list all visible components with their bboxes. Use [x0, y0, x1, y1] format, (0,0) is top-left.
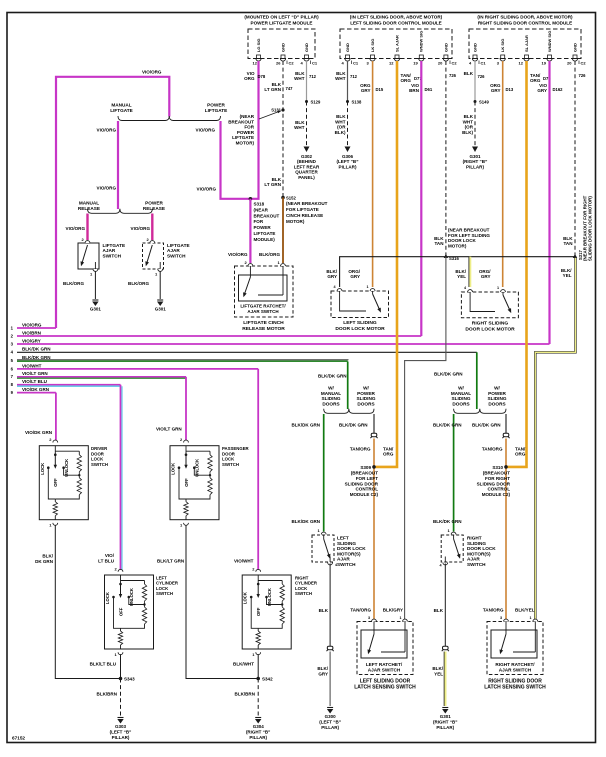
svg-text:AJAR SWITCH: AJAR SWITCH	[499, 668, 532, 673]
svg-text:DOOR LOCK MOTOR: DOOR LOCK MOTOR	[465, 327, 515, 333]
svg-text:W/: W/	[363, 386, 369, 391]
svg-text:AJAR SWITCH: AJAR SWITCH	[247, 309, 278, 314]
svg-text:12: 12	[519, 61, 524, 66]
ground G301 right liftgate ajar switch	[157, 299, 163, 301]
svg-text:BLK: BLK	[464, 71, 474, 76]
svg-text:VIO/ORG: VIO/ORG	[228, 252, 248, 257]
svg-text:LIFTGATE: LIFTGATE	[205, 108, 228, 113]
svg-text:PILLAR): PILLAR)	[466, 164, 484, 169]
svg-text:(IN LEFT SLIDING DOOR, ABOVE M: (IN LEFT SLIDING DOOR, ABOVE MOTOR)	[350, 15, 443, 20]
svg-text:VIO/ORG: VIO/ORG	[131, 226, 151, 231]
svg-text:LT GRN: LT GRN	[264, 87, 281, 92]
svg-text:VIO/ORG: VIO/ORG	[142, 70, 162, 75]
splice S129	[305, 100, 308, 103]
svg-text:UNLOCK: UNLOCK	[267, 588, 272, 606]
module U2 pin 19 WNDW SIG	[419, 55, 423, 59]
svg-text:726: 726	[449, 73, 457, 78]
svg-text:D162: D162	[553, 87, 564, 92]
bus wire 2 VIO/BRN	[17, 335, 421, 337]
wire BLK/ORG power ajar switch to ground	[159, 272, 161, 300]
svg-text:VIO/WHT: VIO/WHT	[22, 363, 42, 368]
svg-text:RIGHT RATCHET/: RIGHT RATCHET/	[495, 662, 535, 667]
svg-text:(BREAKOUT: (BREAKOUT	[483, 471, 511, 476]
svg-text:BLK/BRN: BLK/BRN	[97, 692, 117, 697]
svg-text:1: 1	[497, 286, 499, 290]
svg-text:DK GRN: DK GRN	[35, 559, 53, 564]
svg-text:(IN RIGHT SLIDING DOOR, ABOVE: (IN RIGHT SLIDING DOOR, ABOVE MOTOR)	[477, 15, 573, 20]
module U1 pin 12 LG SIG	[257, 55, 261, 59]
wire VIO/BRN D61 from U2 pin 19 down to bus line 2	[420, 61, 422, 336]
svg-text:(NEAR: (NEAR	[254, 207, 269, 212]
svg-text:C1: C1	[481, 61, 487, 66]
ground G304 right B pillar front	[255, 717, 261, 719]
splice S149	[474, 100, 477, 103]
svg-text:C2: C2	[289, 61, 295, 66]
svg-text:FOR: FOR	[254, 219, 264, 224]
wire VIO/ORG top loop from bus line 1 up and across to first brace	[56, 77, 169, 328]
svg-text:GRY: GRY	[327, 274, 337, 279]
svg-text:BLK/ORG: BLK/ORG	[63, 281, 84, 286]
svg-text:MOTOR(S): MOTOR(S)	[337, 551, 361, 556]
svg-text:726: 726	[478, 74, 486, 79]
svg-text:WHT: WHT	[335, 76, 346, 81]
svg-text:W/: W/	[494, 386, 500, 391]
svg-text:BLK: BLK	[434, 608, 444, 613]
svg-text:BLK): BLK)	[335, 130, 346, 135]
svg-text:POWER: POWER	[254, 225, 272, 230]
svg-text:BLK/DK GRN: BLK/DK GRN	[433, 423, 462, 428]
svg-text:LEFT: LEFT	[337, 536, 349, 541]
splice S342	[256, 677, 260, 681]
splice S310 breakout for right sliding door control module C2	[504, 465, 508, 469]
ground G301 right B pillar lower	[442, 707, 448, 709]
svg-text:DOORS: DOORS	[322, 401, 339, 406]
wire BLK/TAN 726 from U2 pin 20 down to S316	[445, 61, 447, 257]
svg-text:RELEASE MOTOR: RELEASE MOTOR	[242, 326, 285, 332]
svg-text:S149: S149	[479, 100, 489, 105]
svg-text:OFF: OFF	[118, 607, 123, 616]
wire BLK/DK GRN bus 5 drop to left doors brace	[347, 362, 349, 410]
svg-text:BLK: BLK	[464, 114, 474, 119]
bus wire 3 VIO/GRY	[17, 343, 550, 345]
svg-text:BREAKOUT: BREAKOUT	[228, 119, 254, 124]
splice S152 near breakout for liftgate cinch release motor	[281, 196, 285, 200]
svg-text:WHT: WHT	[294, 125, 305, 130]
svg-text:VIO/LT GRN: VIO/LT GRN	[22, 371, 48, 376]
svg-text:VIO/ORG: VIO/ORG	[97, 186, 117, 191]
svg-text:BLK/: BLK/	[317, 666, 328, 671]
svg-text:20: 20	[567, 61, 572, 66]
wire BLK/DK GRN driver switch pin1 down to S343	[55, 525, 120, 679]
switch RIGHT SLIDING DOOR LATCH SENSING SWITCH outer box	[487, 622, 543, 675]
svg-text:VIO/LT BLU: VIO/LT BLU	[22, 379, 47, 384]
svg-text:DOOR LOCK: DOOR LOCK	[467, 546, 496, 551]
svg-text:26: 26	[276, 61, 281, 66]
switch LEFT SLIDING DOOR LOCK MOTOR(S) AJAR SWITCH box	[321, 532, 326, 534]
svg-text:LATCH SENSING SWITCH: LATCH SENSING SWITCH	[484, 685, 546, 691]
wire VIO/LT GRN bus 7 drop to passenger door lock switch	[185, 377, 187, 443]
wire TAN/ORG S309 down to left latch sensing switch	[373, 467, 375, 619]
svg-text:BLK/: BLK/	[432, 666, 443, 671]
svg-text:S152: S152	[286, 196, 296, 201]
bus wire 5 BLK/DK GRN	[17, 359, 349, 361]
module U2 pin 20 GND connector C2	[444, 55, 448, 59]
svg-text:VIO/ORG: VIO/ORG	[66, 226, 86, 231]
inline connector on right power leg	[503, 433, 509, 436]
svg-text:LT GRN: LT GRN	[264, 182, 281, 187]
svg-text:CONTROL: CONTROL	[356, 487, 379, 492]
wire ORG/GRY D15 from U2 pin 3 down to left sliding door lock motor	[372, 61, 374, 287]
wire BLK/DK GRN right manual leg down to motor ajar switch	[453, 414, 455, 532]
svg-text:C1: C1	[312, 61, 318, 66]
module U1 pin 4 GND connector C1	[305, 55, 309, 59]
svg-text:SWITCH: SWITCH	[167, 253, 186, 258]
svg-text:BLK/GRY: BLK/GRY	[383, 608, 403, 613]
svg-text:BLK/BRN: BLK/BRN	[235, 692, 255, 697]
svg-text:VIO/ORG: VIO/ORG	[97, 128, 117, 133]
svg-text:YEL: YEL	[434, 672, 443, 677]
svg-text:BLK/DK GRN: BLK/DK GRN	[22, 347, 51, 352]
svg-text:GND: GND	[345, 43, 350, 52]
svg-text:WHT: WHT	[335, 119, 346, 124]
svg-text:726: 726	[579, 73, 587, 78]
svg-text:(LEFT “B”: (LEFT “B”	[319, 719, 341, 724]
svg-text:D15: D15	[376, 87, 384, 92]
bus wire 1 VIO/ORG	[17, 327, 56, 329]
wire BLK/ORG S152 down to liftgate ratchet switch pin 1	[282, 198, 284, 264]
svg-text:BLK/DK GRN: BLK/DK GRN	[339, 423, 368, 428]
svg-text:SWITCH: SWITCH	[103, 253, 122, 258]
svg-text:OFF: OFF	[53, 478, 58, 487]
svg-text:PILLAR): PILLAR)	[112, 735, 130, 740]
wire VIO/GRY D162 from U3 pin 19 down to bus line 3	[548, 61, 550, 344]
switch LEFT RATCHET/AJAR SWITCH inner box	[361, 630, 407, 658]
svg-text:GRY: GRY	[361, 88, 371, 93]
svg-text:TAN/ORG: TAN/ORG	[482, 447, 503, 452]
wire BLK/YEL to ground G301	[444, 652, 446, 707]
svg-text:67152: 67152	[12, 736, 25, 741]
svg-text:POWER: POWER	[237, 130, 255, 135]
svg-text:LEFT SLIDING: LEFT SLIDING	[343, 320, 377, 326]
svg-text:TAN/ORG: TAN/ORG	[350, 447, 371, 452]
svg-text:LOCK: LOCK	[40, 463, 45, 475]
svg-text:LEFT SLIDING DOOR CONTROL MODU: LEFT SLIDING DOOR CONTROL MODULE	[350, 21, 442, 26]
wire BLK/YEL S317 down and across to right latch sensing switch	[535, 257, 575, 619]
svg-text:SWITCH: SWITCH	[222, 462, 239, 467]
svg-text:BLK/DK GRN: BLK/DK GRN	[318, 374, 347, 379]
svg-text:3: 3	[368, 616, 370, 620]
bus wire 6 VIO/WHT	[17, 368, 258, 370]
wire BLK 726 from U3 pin 4 to S149 then ground G301	[474, 61, 476, 102]
svg-text:LOCK: LOCK	[105, 592, 110, 604]
svg-text:DOOR LOCK: DOOR LOCK	[448, 238, 477, 243]
svg-text:FOR LEFT SLIDING: FOR LEFT SLIDING	[448, 233, 490, 238]
svg-text:LEFT RATCHET/: LEFT RATCHET/	[366, 662, 403, 667]
svg-text:BLK: BLK	[319, 608, 329, 613]
switch LEFT SLIDING DOOR LATCH SENSING SWITCH outer box	[357, 622, 413, 675]
svg-text:PILLAR): PILLAR)	[339, 164, 357, 169]
svg-text:W/: W/	[328, 386, 334, 391]
svg-text:LG SIG: LG SIG	[256, 38, 261, 52]
svg-text:SL AJAR: SL AJAR	[394, 35, 399, 52]
module U2 pin 12 SL AJAR	[395, 55, 399, 59]
svg-text:TAN: TAN	[434, 241, 443, 246]
wire BLK/LT BLU left cylinder pin1 down to S343	[120, 655, 122, 679]
bus wire 7 VIO/LT GRN	[17, 376, 186, 378]
module U1 POWER LIFTGATE MODULE box	[248, 29, 315, 59]
svg-text:TAN: TAN	[563, 241, 572, 246]
module U3 pin 12 SL AJAR	[525, 55, 529, 59]
wire VIO/ORG manual release leg	[86, 214, 88, 241]
splice S131 on BLK/LT GRN wire	[281, 108, 284, 111]
svg-text:PILLAR): PILLAR)	[249, 735, 267, 740]
svg-text:DOOR LOCK MOTOR: DOOR LOCK MOTOR	[335, 326, 385, 332]
svg-text:MANUAL: MANUAL	[79, 201, 99, 206]
wire ORG/GRY D13 from U3 pin 3 down to right sliding door lock motor	[502, 61, 504, 287]
module U3 pin 19 WNDW SIG	[548, 55, 552, 59]
liftgate ajar switch (power) box dashed	[143, 243, 164, 269]
splice S318 near breakout for power liftgate module	[249, 197, 253, 201]
svg-text:(OR: (OR	[337, 125, 346, 130]
svg-text:712: 712	[309, 74, 317, 79]
svg-text:VIO/BRN: VIO/BRN	[22, 330, 41, 335]
brace right w/manual / w/power sliding doors	[454, 409, 506, 414]
motor M2 RIGHT SLIDING DOOR LOCK MOTOR box	[461, 292, 518, 318]
svg-text:MANUAL: MANUAL	[451, 391, 471, 396]
svg-text:YEL: YEL	[563, 273, 572, 278]
svg-text:G303: G303	[115, 724, 127, 729]
svg-text:VIO/ORG: VIO/ORG	[197, 187, 217, 192]
svg-text:(NEAR BREAKOUT: (NEAR BREAKOUT	[448, 228, 490, 233]
svg-text:ORG: ORG	[244, 76, 255, 81]
svg-text:C2: C2	[581, 61, 587, 66]
svg-text:SWITCH: SWITCH	[295, 591, 312, 596]
wire BLK/DK GRN left manual leg down to motor ajar switch	[323, 414, 325, 532]
splice S309 breakout for left sliding door control module C2	[372, 465, 376, 469]
svg-text:GND: GND	[572, 43, 577, 52]
switch LEFT CYLINDER LOCK SWITCH box	[105, 575, 154, 649]
svg-text:BLK/ORG: BLK/ORG	[259, 252, 280, 257]
svg-text:VIO/DK GRN: VIO/DK GRN	[25, 430, 52, 435]
svg-text:BLK/DK GRN: BLK/DK GRN	[292, 519, 321, 524]
svg-text:LIFTGATE CINCH: LIFTGATE CINCH	[243, 320, 284, 326]
svg-text:POWER: POWER	[207, 103, 225, 108]
svg-text:(RIGHT “B”: (RIGHT “B”	[246, 729, 271, 734]
svg-text:AJAR: AJAR	[337, 557, 350, 562]
wire BLK/WHT right cylinder pin1 down to S342	[257, 655, 259, 679]
wire VIO/ORG power release leg	[151, 214, 153, 241]
liftgate ratchet/ajar switch inner box	[239, 275, 288, 301]
svg-text:RIGHT SLIDING DOOR CONTROL MOD: RIGHT SLIDING DOOR CONTROL MODULE	[478, 21, 572, 26]
svg-text:SLIDING: SLIDING	[451, 396, 470, 401]
svg-text:LK SIG: LK SIG	[500, 39, 505, 52]
svg-text:LIFTGATE: LIFTGATE	[254, 231, 276, 236]
svg-text:GRY: GRY	[481, 274, 491, 279]
svg-text:BLK: BLK	[336, 114, 346, 119]
wire BLK/WHT 712 from U2 pin 4 to S138 then ground G306	[347, 61, 349, 102]
svg-text:SLIDING: SLIDING	[321, 396, 340, 401]
svg-text:19: 19	[413, 61, 418, 66]
svg-text:D13: D13	[506, 87, 514, 92]
svg-text:GRY: GRY	[537, 88, 547, 93]
svg-text:RELEASE: RELEASE	[143, 206, 165, 211]
svg-text:BLK/ORG: BLK/ORG	[128, 281, 149, 286]
bus wire 4 BLK/DK GRN	[17, 351, 477, 353]
svg-text:TAN/ORG: TAN/ORG	[350, 608, 371, 613]
svg-text:UNLOCK: UNLOCK	[129, 588, 134, 606]
svg-text:GND: GND	[472, 43, 477, 52]
svg-text:UNLOCK: UNLOCK	[195, 459, 200, 477]
svg-text:MANUAL: MANUAL	[321, 391, 341, 396]
svg-text:G301: G301	[440, 714, 452, 719]
svg-text:LIFTGATE: LIFTGATE	[110, 108, 133, 113]
svg-text:MOTOR): MOTOR)	[286, 219, 305, 224]
svg-text:SLIDING DOOR: SLIDING DOOR	[477, 481, 511, 486]
svg-text:SWITCH: SWITCH	[91, 462, 108, 467]
svg-text:FOR: FOR	[244, 125, 254, 130]
svg-text:MODULE C2): MODULE C2)	[482, 492, 511, 497]
wire VIO/ORG manual liftgate leg down to second brace	[117, 121, 119, 209]
liftgate ajar switch (manual) box	[78, 243, 99, 269]
wire BLK/BRN S343 to ground G303	[120, 679, 122, 717]
svg-text:VIO/LT GRN: VIO/LT GRN	[156, 427, 182, 432]
svg-text:GRY: GRY	[318, 672, 328, 677]
svg-text:DOORS: DOORS	[452, 401, 469, 406]
svg-text:LIFTGATE RATCHET/: LIFTGATE RATCHET/	[240, 304, 286, 309]
svg-text:VIO/ORG: VIO/ORG	[196, 128, 216, 133]
module U3 RIGHT SLIDING DOOR CONTROL MODULE box	[469, 29, 581, 59]
svg-text:S129: S129	[311, 100, 321, 105]
wire BLK ground bus horizontal S316-S317	[340, 257, 576, 287]
svg-text:BLK): BLK)	[462, 130, 473, 135]
module U2 LEFT SLIDING DOOR CONTROL MODULE box	[340, 29, 452, 59]
svg-text:AJAR: AJAR	[467, 557, 480, 562]
svg-text:POWER LIFTGATE MODULE: POWER LIFTGATE MODULE	[251, 21, 313, 26]
svg-text:S318: S318	[254, 202, 265, 207]
wire TAN/ORG D76 from U3 pin 12 down to S310	[506, 61, 527, 467]
svg-text:VIO/GRY: VIO/GRY	[22, 338, 41, 343]
svg-text:W/: W/	[458, 386, 464, 391]
svg-text:(LEFT “B”: (LEFT “B”	[110, 729, 132, 734]
svg-text:SWITCH: SWITCH	[467, 562, 486, 567]
svg-text:(NEAR BREAKOUT: (NEAR BREAKOUT	[286, 201, 328, 206]
svg-text:SLIDING DOOR LOCK MOTOR): SLIDING DOOR LOCK MOTOR)	[587, 196, 592, 261]
svg-text:PANEL): PANEL)	[298, 175, 315, 180]
svg-text:AJAR SWITCH: AJAR SWITCH	[368, 668, 401, 673]
svg-text:SLIDING: SLIDING	[487, 396, 506, 401]
svg-text:S131: S131	[271, 108, 281, 113]
liftgate cinch release motor outer dashed box	[235, 266, 294, 317]
svg-text:(MOUNTED ON LEFT “D” PILLAR): (MOUNTED ON LEFT “D” PILLAR)	[244, 15, 319, 20]
module U2 pin 3 LK SIG	[371, 55, 375, 59]
svg-text:1: 1	[530, 616, 532, 620]
svg-text:C2: C2	[452, 61, 458, 66]
svg-text:C1: C1	[353, 61, 359, 66]
wire BLK/BRN S342 to ground G304	[257, 679, 259, 717]
svg-text:MANUAL: MANUAL	[111, 103, 131, 108]
switch RIGHT RATCHET/AJAR SWITCH inner box	[491, 630, 537, 658]
svg-text:BLK/DK GRN: BLK/DK GRN	[22, 355, 51, 360]
wire BLK left ajar switch to connector	[329, 564, 331, 647]
svg-text:D78: D78	[258, 74, 266, 79]
wire BLK/WHT 712 from U1 pin 4 to S129 and ground G302	[306, 61, 308, 102]
svg-text:GND: GND	[280, 43, 285, 52]
svg-text:(RIGHT “B”: (RIGHT “B”	[433, 719, 458, 724]
svg-text:VIO/WHT: VIO/WHT	[234, 559, 254, 564]
svg-text:20: 20	[438, 61, 443, 66]
svg-text:WHT: WHT	[463, 119, 474, 124]
brace manual/power release split	[88, 209, 153, 214]
svg-text:LOCK: LOCK	[243, 592, 248, 604]
svg-text:BLK/DK GRN: BLK/DK GRN	[292, 423, 321, 428]
wire VIO/DK GRN bus 9 drop to driver door lock switch	[55, 393, 57, 443]
svg-text:LOCK: LOCK	[171, 463, 176, 475]
svg-text:WNDW SIG: WNDW SIG	[547, 31, 552, 52]
svg-text:S343: S343	[124, 677, 135, 682]
svg-text:(BREAKOUT: (BREAKOUT	[351, 471, 379, 476]
wire BLK/GRY S316 down jog to left latch sensing switch	[405, 257, 446, 619]
wire BLK/ORG manual ajar switch to ground	[94, 272, 96, 300]
wire BLK/YEL drop to right door lock motor pin	[469, 257, 471, 287]
brace manual/power liftgate split	[118, 116, 221, 121]
switch RIGHT SLIDING DOOR LOCK MOTOR(S) AJAR SWITCH box	[451, 532, 456, 534]
splice S138	[346, 100, 349, 103]
wire BLK/LT GRN passenger switch pin1 down to S342	[186, 525, 258, 679]
wire left power leg to connector then TAN/ORG to S309	[373, 414, 375, 433]
wire BLK/GRY to ground G300	[329, 652, 331, 707]
svg-text:CINCH RELEASE: CINCH RELEASE	[286, 213, 323, 218]
wire BLK/LT GRN 747 from U1 pin 26 down to S152	[282, 61, 284, 198]
wire BLK right ajar switch to connector	[444, 564, 446, 647]
svg-text:FOR RIGHT: FOR RIGHT	[485, 476, 510, 481]
svg-text:ORG: ORG	[401, 78, 412, 83]
module U2 pin 4 GND connector C1	[346, 55, 350, 59]
svg-text:FOR LEFT: FOR LEFT	[356, 476, 378, 481]
svg-text:MODULE): MODULE)	[254, 237, 276, 242]
svg-text:SWITCH: SWITCH	[156, 591, 173, 596]
svg-text:RIGHT: RIGHT	[467, 536, 482, 541]
svg-text:12: 12	[253, 61, 258, 66]
svg-text:FOR LIFTGATE: FOR LIFTGATE	[286, 207, 319, 212]
svg-text:DOOR LOCK: DOOR LOCK	[337, 546, 366, 551]
svg-text:OFF: OFF	[256, 607, 261, 616]
svg-text:BLK/LT GRN: BLK/LT GRN	[157, 559, 184, 564]
wire VIO/WHT bus 6 drop to right cylinder lock switch	[257, 369, 259, 572]
ground G301 left liftgate ajar switch	[92, 299, 98, 301]
svg-text:YEL: YEL	[457, 274, 466, 279]
svg-text:TAN/ORG: TAN/ORG	[483, 608, 504, 613]
svg-text:SLIDING: SLIDING	[337, 541, 356, 546]
svg-text:712: 712	[350, 74, 358, 79]
inline connector left bottom	[327, 646, 333, 649]
svg-text:PILLAR): PILLAR)	[436, 725, 454, 730]
svg-text:GRY: GRY	[491, 88, 501, 93]
wire VIO/ORG power liftgate leg down to S318 horizontal	[221, 121, 251, 199]
svg-text:G304: G304	[253, 724, 265, 729]
svg-text:1: 1	[400, 616, 402, 620]
inline connector right bottom	[443, 646, 449, 649]
svg-text:POWER: POWER	[145, 201, 163, 206]
module U3 pin 4 GND connector C1	[473, 55, 477, 59]
svg-text:MOTOR(S): MOTOR(S)	[467, 551, 491, 556]
wire VIO/LT BLU bus 8 drop to left cylinder lock switch	[120, 385, 122, 572]
svg-text:SL AJAR: SL AJAR	[524, 35, 529, 52]
svg-text:GRY: GRY	[350, 274, 360, 279]
svg-text:VIO/: VIO/	[105, 553, 115, 558]
module U1 pin 26 GND connector C2	[281, 55, 285, 59]
svg-text:POWER: POWER	[357, 391, 375, 396]
svg-text:BLK/YEL: BLK/YEL	[515, 608, 535, 613]
